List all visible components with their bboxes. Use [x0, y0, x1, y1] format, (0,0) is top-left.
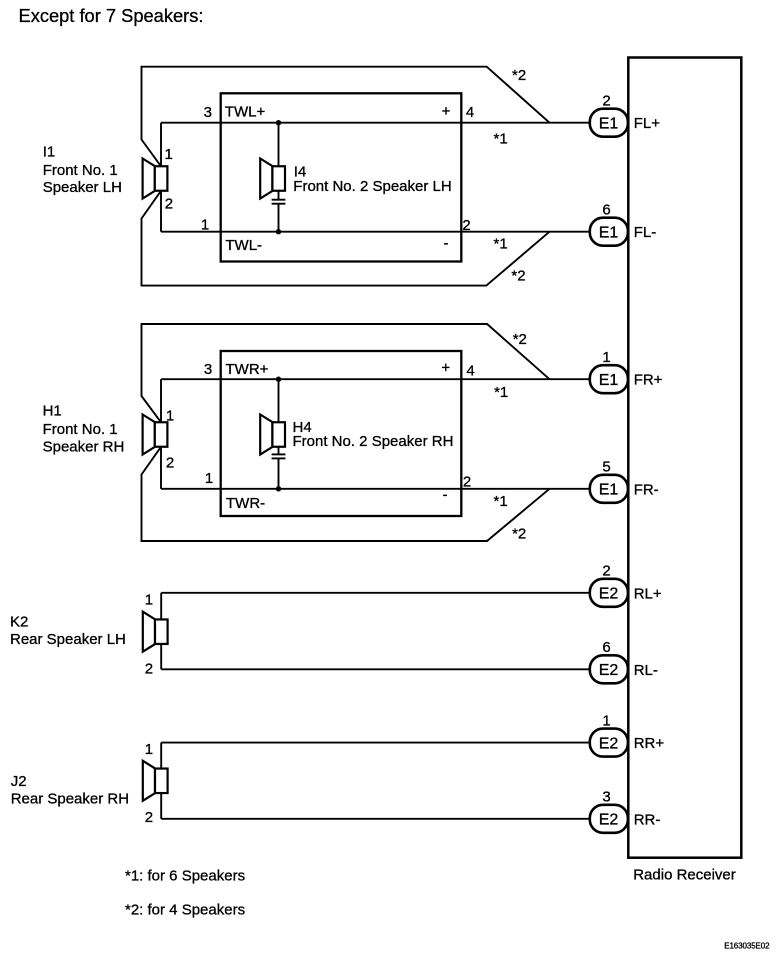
svg-text:2: 2 [165, 196, 173, 213]
svg-text:FR+: FR+ [634, 372, 663, 389]
svg-text:4: 4 [466, 363, 474, 380]
svg-text:Front No. 1: Front No. 1 [43, 162, 118, 179]
svg-text:I1: I1 [43, 144, 56, 161]
svg-text:2: 2 [602, 92, 610, 109]
wire *2 path FR- (H1 pin2 to E1, for 4 speakers) [142, 447, 550, 541]
wire H4 top lead [278, 379, 280, 422]
svg-text:*2: for 4 Speakers: *2: for 4 Speakers [125, 902, 245, 919]
node TWR- junction [276, 486, 281, 491]
svg-text:1: 1 [166, 408, 174, 425]
svg-text:K2: K2 [10, 614, 28, 631]
svg-text:Speaker LH: Speaker LH [43, 179, 122, 196]
svg-text:Speaker RH: Speaker RH [43, 439, 125, 456]
wire K2 pin1 riser [160, 593, 162, 620]
wire H1 pin2 riser [160, 447, 162, 489]
svg-text:E1: E1 [599, 482, 619, 499]
speaker J2 Rear Speaker RH [143, 761, 168, 801]
wire TWR- (FR-) [161, 488, 590, 490]
svg-text:FR-: FR- [634, 481, 659, 498]
svg-text:TWL-: TWL- [225, 237, 262, 254]
node TWL- junction [276, 229, 281, 234]
connector E1 pin 5 (FR-) [590, 475, 628, 503]
svg-text:4: 4 [466, 104, 474, 121]
svg-text:E163035E02: E163035E02 [724, 942, 770, 951]
connector E2 pin 1 (RR+) [590, 729, 628, 757]
wire I4 to capacitor [278, 191, 280, 200]
svg-text:*2: *2 [512, 67, 526, 84]
svg-text:2: 2 [166, 454, 174, 471]
svg-text:2: 2 [602, 563, 610, 580]
wire J2 pin1 riser [160, 743, 162, 769]
svg-text:E1: E1 [599, 225, 619, 242]
svg-text:*2: *2 [513, 331, 527, 348]
svg-text:6: 6 [602, 639, 610, 656]
speaker H4 Front No. 2 Speaker RH (tweeter) [260, 415, 285, 455]
wire capacitor to TWR- [278, 458, 280, 488]
svg-text:RR-: RR- [634, 811, 661, 828]
wire TWL+ (FL+) [161, 122, 590, 124]
svg-text:Front No. 2 Speaker RH: Front No. 2 Speaker RH [293, 433, 454, 450]
wire TWR+ (FR+) [161, 378, 590, 380]
svg-text:1: 1 [201, 217, 209, 234]
wire I4 top lead [278, 123, 280, 167]
svg-text:2: 2 [145, 809, 153, 826]
svg-text:1: 1 [145, 741, 153, 758]
wire J2 pin2 riser [160, 793, 162, 819]
svg-text:Front No. 2 Speaker LH: Front No. 2 Speaker LH [293, 178, 451, 195]
radio receiver box [628, 58, 741, 858]
connector E2 pin 6 (RL-) [590, 655, 628, 683]
svg-text:*1: *1 [494, 235, 508, 252]
svg-text:1: 1 [165, 146, 173, 163]
speaker I1 Front No. 1 Speaker LH [143, 159, 168, 199]
svg-text:2: 2 [462, 217, 470, 234]
svg-text:1: 1 [602, 712, 610, 729]
connector E2 pin 3 (RR-) [590, 805, 628, 833]
wire capacitor to TWL- [278, 204, 280, 232]
svg-text:Rear Speaker LH: Rear Speaker LH [10, 631, 126, 648]
capacitor I4 series cap [272, 200, 286, 204]
svg-text:RL-: RL- [634, 662, 658, 679]
connector E1 pin 6 (FL-) [590, 218, 628, 246]
wire I1 pin2 riser [160, 191, 162, 232]
svg-text:1: 1 [205, 470, 213, 487]
svg-text:*1: *1 [494, 493, 508, 510]
speaker I4 Front No. 2 Speaker LH (tweeter) [260, 159, 285, 199]
svg-text:2: 2 [145, 660, 153, 677]
svg-text:H1: H1 [43, 403, 62, 420]
node TWL+ junction [276, 120, 281, 125]
unit box H4 (Front No. 2 Speaker RH) [221, 351, 462, 516]
svg-text:-: - [443, 487, 448, 504]
speaker H1 Front No. 1 Speaker RH [143, 415, 168, 455]
svg-text:5: 5 [602, 459, 610, 476]
svg-text:*1: *1 [494, 384, 508, 401]
svg-text:TWR-: TWR- [226, 495, 265, 512]
wire RR- (J2 pin2 to E2) [161, 818, 590, 820]
svg-text:E2: E2 [599, 735, 619, 752]
svg-text:3: 3 [204, 104, 212, 121]
svg-text:*1: for 6 Speakers: *1: for 6 Speakers [125, 868, 245, 885]
svg-text:3: 3 [204, 361, 212, 378]
svg-text:*2: *2 [512, 526, 526, 543]
svg-text:E1: E1 [599, 372, 619, 389]
svg-text:E2: E2 [599, 812, 619, 829]
svg-text:1: 1 [602, 349, 610, 366]
svg-text:*1: *1 [494, 130, 508, 147]
svg-text:Radio Receiver: Radio Receiver [633, 866, 736, 883]
node TWR+ junction [276, 377, 281, 382]
wire K2 pin2 riser [160, 644, 162, 669]
wire RR+ (J2 pin1 to E2) [161, 742, 590, 744]
connector E1 pin 2 (FL+) [590, 109, 628, 137]
connector E2 pin 2 (RL+) [590, 579, 628, 607]
svg-text:Except for 7 Speakers:: Except for 7 Speakers: [19, 5, 204, 26]
svg-text:J2: J2 [11, 773, 27, 790]
svg-text:Front No. 1: Front No. 1 [43, 421, 118, 438]
svg-text:+: + [441, 360, 450, 377]
svg-text:TWL+: TWL+ [225, 104, 266, 121]
svg-text:6: 6 [602, 201, 610, 218]
svg-text:-: - [444, 235, 449, 252]
wire TWL- (FL-) [161, 231, 590, 233]
wire I1 pin1 riser [160, 123, 162, 167]
svg-text:*2: *2 [511, 268, 525, 285]
svg-text:FL+: FL+ [634, 115, 661, 132]
svg-text:3: 3 [602, 789, 610, 806]
svg-text:RR+: RR+ [634, 735, 665, 752]
svg-text:FL-: FL- [634, 224, 657, 241]
svg-text:E2: E2 [599, 662, 619, 679]
wire *2 path FL+ (I1 pin1 to E1, for 4 speakers) [142, 67, 550, 167]
svg-text:E2: E2 [599, 586, 619, 603]
svg-text:E1: E1 [599, 116, 619, 133]
wire *2 path FR+ (H1 pin1 to E1, for 4 speakers) [142, 324, 550, 422]
connector E1 pin 1 (FR+) [590, 365, 628, 393]
wire H4 to capacitor [278, 447, 280, 455]
svg-text:TWR+: TWR+ [226, 361, 269, 378]
wire RL- (K2 pin2 to E2) [161, 668, 590, 670]
svg-text:+: + [442, 103, 451, 120]
unit box I4 (Front No. 2 Speaker LH) [221, 93, 462, 261]
wire RL+ (K2 pin1 to E2) [161, 592, 590, 594]
svg-text:1: 1 [145, 592, 153, 609]
wire H1 pin1 riser [160, 379, 162, 422]
svg-text:RL+: RL+ [634, 585, 662, 602]
svg-text:2: 2 [463, 473, 471, 490]
wire *2 path FL- (I1 pin2 to E1, for 4 speakers) [142, 191, 550, 286]
speaker K2 Rear Speaker LH [143, 612, 168, 652]
svg-text:Rear Speaker RH: Rear Speaker RH [11, 791, 129, 808]
capacitor H4 series cap [272, 454, 286, 458]
